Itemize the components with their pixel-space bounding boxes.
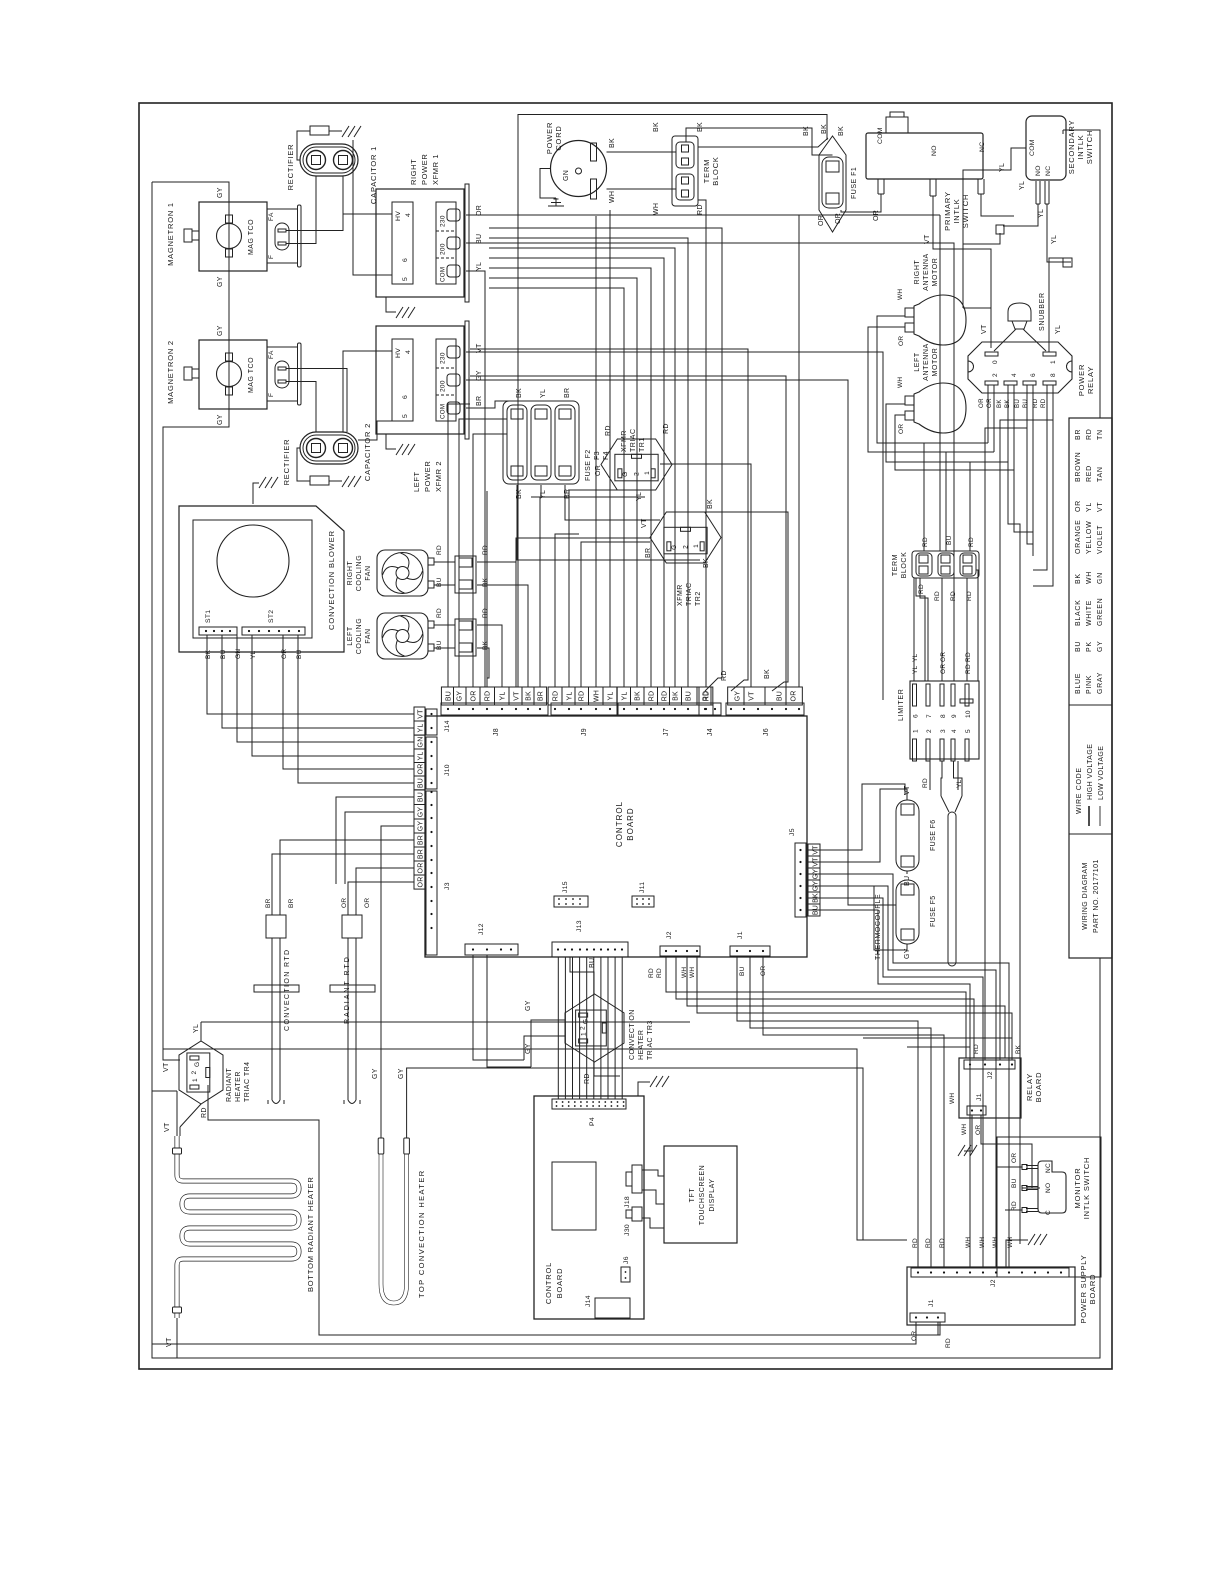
svg-text:J2: J2 <box>990 1279 997 1287</box>
monitor intlk switch body <box>1038 1161 1066 1213</box>
svg-text:BR: BR <box>538 691 545 701</box>
capacitor C2 terminal 2 <box>334 439 353 458</box>
wire GY magnetron2 left <box>163 409 229 1060</box>
wire OR fuse F1 to primary COM <box>841 194 881 212</box>
wire GY heater tube A <box>381 826 414 1138</box>
svg-text:BK: BK <box>673 691 680 701</box>
svg-text:COM: COM <box>877 127 884 144</box>
svg-text:GY: GY <box>217 187 224 198</box>
svg-text:G: G <box>194 1062 201 1067</box>
svg-text:OR: OR <box>898 424 905 434</box>
J4 pin labels <box>699 687 711 705</box>
svg-text:CORD: CORD <box>554 125 563 150</box>
svg-text:RIGHT: RIGHT <box>347 560 354 585</box>
svg-text:RD: RD <box>648 968 655 978</box>
svg-text:J1: J1 <box>737 931 744 939</box>
wire rectifier 1 <box>297 131 310 160</box>
svg-text:YL: YL <box>912 653 919 662</box>
secondary intlk switch terminals <box>1035 181 1037 204</box>
svg-text:WIRE CODE: WIRE CODE <box>1076 767 1083 814</box>
TB2 element 3 <box>960 553 976 576</box>
left antenna motor terminals <box>905 411 914 420</box>
svg-text:WH: WH <box>961 1124 968 1135</box>
TFT display box <box>664 1146 737 1243</box>
svg-text:F: F <box>268 255 275 259</box>
xfmr triac TR1 <box>601 439 672 490</box>
svg-text:HV: HV <box>395 211 402 221</box>
svg-text:10: 10 <box>965 710 972 718</box>
wire YL secondary NC <box>1047 204 1071 262</box>
svg-text:WH: WH <box>689 967 696 978</box>
left cooling fan body <box>377 613 428 659</box>
convection RTD probe <box>271 938 273 1100</box>
thermocouple cone <box>941 796 949 812</box>
svg-text:230: 230 <box>440 215 447 227</box>
PSB ground <box>1006 1240 1028 1267</box>
power supply J2 <box>911 1268 1069 1277</box>
svg-text:P4: P4 <box>589 1117 596 1126</box>
svg-text:BU: BU <box>417 778 424 788</box>
magnetron 2 MAG TCO circle <box>217 362 242 387</box>
xfmr2 terminal COM <box>447 402 460 414</box>
svg-text:RD: RD <box>1086 428 1093 440</box>
svg-text:OR: OR <box>986 398 993 408</box>
svg-text:POWER: POWER <box>545 122 554 154</box>
svg-text:MAG TCO: MAG TCO <box>248 357 255 393</box>
left fan wires <box>434 624 455 626</box>
svg-text:FA: FA <box>268 350 275 359</box>
svg-text:PART NO. 20177101: PART NO. 20177101 <box>1093 859 1100 933</box>
svg-text:ST1: ST1 <box>205 610 212 623</box>
svg-text:1: 1 <box>1050 360 1057 364</box>
blower ST1 connector <box>199 627 237 635</box>
wire term block to fuse F1 <box>686 128 833 155</box>
wire YL secondary COM to relay region <box>963 308 991 348</box>
relay board outline <box>959 1058 1021 1118</box>
magnetron 2 antenna stub <box>184 367 192 380</box>
wire thermocouple to limiter RD YL <box>929 761 931 790</box>
svg-text:DISPLAY: DISPLAY <box>709 1178 716 1211</box>
svg-text:5: 5 <box>965 729 972 733</box>
svg-text:XFMR 1: XFMR 1 <box>431 154 440 185</box>
svg-text:J30: J30 <box>624 1224 631 1236</box>
svg-text:GRAY: GRAY <box>1097 672 1104 694</box>
wire capacitor1 to xfmr1 HV <box>343 176 392 214</box>
wire J12 left <box>473 955 524 1060</box>
wire OR xfmr1 to J6 and TB2 <box>466 214 940 216</box>
svg-text:COM: COM <box>440 404 447 419</box>
svg-text:RIGHT: RIGHT <box>914 259 921 284</box>
J5 pin labels <box>808 844 820 916</box>
wire magnetron2 filament to capacitor2 <box>286 369 347 433</box>
svg-text:FAN: FAN <box>365 565 372 580</box>
svg-text:RD: RD <box>662 691 669 702</box>
svg-text:COOLING: COOLING <box>356 555 363 591</box>
terminal lug YL 2 <box>1063 258 1072 267</box>
svg-text:BOARD: BOARD <box>555 1268 564 1299</box>
svg-text:1: 1 <box>693 544 700 548</box>
svg-text:J13: J13 <box>576 920 583 932</box>
wire TB2 to relay <box>924 443 988 551</box>
svg-text:BLACK: BLACK <box>1075 600 1082 626</box>
right cooling fan body <box>377 550 428 596</box>
svg-text:3: 3 <box>940 729 947 733</box>
magnetron 2 filament oval <box>275 361 289 388</box>
wire limiter to TB2 <box>913 578 915 681</box>
svg-text:RD: RD <box>436 608 443 618</box>
wire VT to serpentine entry <box>176 1091 178 1136</box>
svg-text:4: 4 <box>1011 373 1018 377</box>
svg-text:RD: RD <box>436 545 443 555</box>
relay pin 8 <box>1043 381 1056 385</box>
xfmr1 terminal 200 <box>447 237 460 249</box>
svg-text:RD: RD <box>934 591 941 601</box>
svg-text:COM: COM <box>440 267 447 282</box>
svg-text:BK: BK <box>996 399 1003 408</box>
svg-text:WH: WH <box>1007 1237 1014 1248</box>
wire long top <box>163 1049 907 1240</box>
svg-text:OR: OR <box>911 1331 918 1341</box>
svg-text:PINK: PINK <box>1086 675 1093 694</box>
svg-text:MONITOR: MONITOR <box>1073 1168 1082 1209</box>
connector J4 <box>699 703 721 715</box>
wire capacitor2 to xfmr2 HV <box>343 351 392 432</box>
connector J10 <box>426 737 437 789</box>
svg-text:RELAY: RELAY <box>1086 366 1095 394</box>
wire bus J7 to components <box>489 288 624 687</box>
relay pin 6 wires <box>1027 385 1033 544</box>
wire GY through magnetron 1 <box>228 202 230 271</box>
svg-text:BLOCK: BLOCK <box>711 156 720 185</box>
svg-text:BK: BK <box>764 669 771 679</box>
svg-text:RD: RD <box>649 691 656 702</box>
svg-text:2: 2 <box>992 373 999 377</box>
relay board J2 <box>964 1060 1015 1069</box>
svg-text:BOARD: BOARD <box>1088 1274 1097 1305</box>
svg-text:WH: WH <box>609 191 616 203</box>
svg-text:YL: YL <box>250 650 257 659</box>
wire bus J9 to components <box>555 534 579 687</box>
svg-text:5: 5 <box>402 414 409 418</box>
svg-text:SECONDARY: SECONDARY <box>1067 120 1076 175</box>
wire GY magnetron1 right loop <box>152 182 229 202</box>
svg-text:XFMR: XFMR <box>677 584 684 606</box>
wire main loop <box>152 182 1100 1358</box>
limiter pins 6-10 <box>913 684 917 706</box>
wire YL lug from secondary <box>963 233 1000 244</box>
wire BU xfmr1 to limiter <box>466 243 954 681</box>
cb2 inner rect <box>552 1162 596 1230</box>
svg-text:OR: OR <box>364 898 371 908</box>
svg-text:1: 1 <box>192 1078 199 1082</box>
TFT connection J30 <box>642 1218 664 1228</box>
svg-text:GREEN: GREEN <box>1097 598 1104 626</box>
wire BK fuse F2 to TR2 <box>517 485 700 560</box>
svg-text:OR: OR <box>898 336 905 346</box>
TFT connection J18 <box>642 1190 664 1204</box>
blower chassis ground <box>253 483 259 504</box>
right antenna motor terminals <box>905 323 914 332</box>
secondary intlk switch body <box>1026 116 1066 180</box>
svg-text:BLOCK: BLOCK <box>901 552 908 579</box>
connector J11 <box>632 896 654 907</box>
svg-text:BR: BR <box>265 898 272 908</box>
wire GY J3 cell <box>345 812 414 884</box>
wire YL fuse F3 <box>541 485 645 497</box>
svg-text:RD: RD <box>485 691 492 702</box>
svg-text:2: 2 <box>926 729 933 733</box>
svg-text:HIGH VOLTAGE: HIGH VOLTAGE <box>1087 744 1094 800</box>
svg-text:COOLING: COOLING <box>356 618 363 654</box>
svg-text:CONVECTION: CONVECTION <box>629 1009 636 1060</box>
svg-text:G: G <box>583 1019 590 1024</box>
svg-text:OR: OR <box>281 649 288 659</box>
wire BR fuse F4 run <box>565 485 660 520</box>
svg-text:VT: VT <box>514 691 521 701</box>
svg-text:BU: BU <box>436 640 443 650</box>
P4 ribbon wires <box>557 957 559 1099</box>
svg-text:BK: BK <box>516 388 523 398</box>
magnetron 2 filament bracket <box>267 346 298 348</box>
svg-text:CONTROL: CONTROL <box>544 1262 553 1304</box>
svg-text:RD: RD <box>965 652 972 662</box>
limiter pins 1-5 <box>913 739 917 761</box>
svg-text:OR: OR <box>1075 500 1082 512</box>
bottom radiant heater tube outline <box>177 1136 299 1318</box>
relay pin 8 wires <box>1033 385 1047 570</box>
left antenna motor body <box>914 383 966 433</box>
svg-text:CONTROL: CONTROL <box>615 801 624 847</box>
wire RD TR4 to power supply J1 <box>208 1085 940 1335</box>
svg-text:BU: BU <box>739 966 746 976</box>
svg-text:YELLOW: YELLOW <box>1086 521 1093 554</box>
svg-text:BK: BK <box>838 126 845 136</box>
svg-text:RADIANT RTD: RADIANT RTD <box>344 955 351 1024</box>
snubber wires to relay <box>994 329 1016 351</box>
relay pin 0 <box>985 352 998 356</box>
svg-text:J2: J2 <box>987 1071 994 1079</box>
connector P4 <box>552 1099 626 1109</box>
svg-text:TRIAC TR4: TRIAC TR4 <box>244 1061 251 1102</box>
svg-text:J11: J11 <box>639 882 646 893</box>
svg-text:J6: J6 <box>763 728 770 736</box>
fuse F2 <box>507 405 527 480</box>
svg-text:BU: BU <box>1022 399 1029 408</box>
svg-text:YL: YL <box>622 692 629 701</box>
left cooling fan terminals <box>428 644 434 651</box>
magnetron 1 box <box>199 202 267 271</box>
TB2 element 1 <box>916 553 932 576</box>
svg-text:WH: WH <box>1086 571 1093 584</box>
svg-text:2: 2 <box>580 1026 587 1030</box>
legend outer box <box>1069 418 1112 958</box>
connector J18 <box>632 1165 642 1193</box>
svg-text:PK: PK <box>1086 641 1093 652</box>
relay J2 long wires to power relay <box>985 385 1027 1060</box>
svg-text:TRIAC: TRIAC <box>686 583 693 607</box>
svg-text:VIOLET: VIOLET <box>1097 525 1104 554</box>
wire BU J3 cell <box>336 797 414 884</box>
svg-text:G: G <box>622 471 629 476</box>
capacitor C2 body <box>300 432 358 464</box>
wire fuse F5 to J5 <box>807 886 907 950</box>
svg-text:BR: BR <box>417 849 424 859</box>
svg-text:TERM: TERM <box>892 554 899 576</box>
svg-text:YL: YL <box>567 692 574 701</box>
svg-text:FAN: FAN <box>365 628 372 643</box>
svg-text:J12: J12 <box>478 923 485 935</box>
limiter box <box>910 681 979 759</box>
control board 2 outline <box>534 1096 644 1319</box>
svg-text:OR: OR <box>476 205 483 216</box>
svg-text:SNUBBER: SNUBBER <box>1039 292 1046 331</box>
svg-text:LOW VOLTAGE: LOW VOLTAGE <box>1098 746 1105 800</box>
limiter extra wires <box>916 578 925 681</box>
svg-text:CAPACITOR 2: CAPACITOR 2 <box>363 423 372 481</box>
xfmr1 terminal 230 <box>447 209 460 221</box>
svg-text:J4: J4 <box>707 728 714 736</box>
magnetron 2 flange plate <box>298 343 302 405</box>
capacitor C1 terminal 1 <box>307 151 326 170</box>
svg-text:RED: RED <box>1086 465 1093 482</box>
magnetron 2 box <box>199 340 267 409</box>
wire OR right motor <box>868 327 994 452</box>
xfmr2 HV winding box <box>392 339 413 421</box>
magnetron 1 filament bracket <box>267 208 298 210</box>
right power xfmr 1 box <box>376 189 464 297</box>
svg-text:J3: J3 <box>444 882 451 890</box>
connector J15 <box>554 896 588 907</box>
wire VT TR4 to radiant heater <box>180 1104 201 1127</box>
svg-text:POWER: POWER <box>420 154 429 185</box>
svg-text:INTLK: INTLK <box>1076 134 1085 159</box>
svg-text:BK: BK <box>707 499 714 509</box>
svg-text:J8: J8 <box>493 728 500 736</box>
wire bundle J5 down to power supply <box>807 910 970 1267</box>
xfmr1 HV winding box <box>392 202 413 284</box>
svg-text:GY: GY <box>735 691 742 702</box>
xfmr1 terminal COM <box>447 265 460 277</box>
svg-text:COM: COM <box>1029 139 1036 156</box>
svg-text:TN: TN <box>1097 429 1104 440</box>
GN wire <box>540 169 556 199</box>
svg-text:BR: BR <box>288 898 295 908</box>
svg-text:YL: YL <box>999 163 1006 172</box>
relay pin 1 wire YL <box>1049 258 1063 352</box>
J7 pin labels <box>617 687 713 705</box>
svg-text:CAPACITOR 1: CAPACITOR 1 <box>369 146 378 204</box>
svg-text:LIMITER: LIMITER <box>898 688 905 721</box>
svg-text:RD: RD <box>939 1238 946 1248</box>
TR4 wires <box>163 1059 179 1061</box>
svg-text:INTLK: INTLK <box>952 198 961 223</box>
wire OR left motor <box>895 415 1014 470</box>
term block TB1 <box>672 136 698 206</box>
connector J12 <box>465 944 518 955</box>
legend low voltage <box>1099 806 1101 826</box>
wire YL secondary NO <box>1003 204 1038 226</box>
primary intlk switch terminals <box>877 179 879 194</box>
convection blower circle <box>217 525 289 597</box>
svg-text:OR: OR <box>978 398 985 408</box>
svg-text:MAGNETRON 2: MAGNETRON 2 <box>166 340 175 404</box>
svg-text:ANTENNA: ANTENNA <box>923 253 930 291</box>
wire from primary NC <box>981 194 1014 216</box>
svg-text:GY: GY <box>398 1068 405 1079</box>
svg-text:YL: YL <box>540 389 547 398</box>
svg-text:SWITCH: SWITCH <box>1085 130 1094 164</box>
svg-text:CONVECTION BLOWER: CONVECTION BLOWER <box>327 530 336 630</box>
svg-text:GY: GY <box>525 1000 532 1011</box>
svg-text:4: 4 <box>951 729 958 733</box>
connector J6 <box>726 703 804 715</box>
svg-text:1: 1 <box>913 729 920 733</box>
fuse F5 <box>896 880 919 944</box>
svg-text:RD: RD <box>605 425 612 436</box>
svg-text:FUSE F5: FUSE F5 <box>930 895 937 927</box>
svg-text:TR2: TR2 <box>695 591 702 606</box>
xfmr2 terminal 200 <box>447 374 460 386</box>
svg-text:MOTOR: MOTOR <box>932 258 939 287</box>
rectifier 2 resistor <box>310 476 329 485</box>
svg-text:VT: VT <box>749 691 756 701</box>
svg-text:GY: GY <box>417 807 424 818</box>
power relay body <box>968 342 1072 393</box>
connector J5 <box>795 843 806 917</box>
svg-text:BU: BU <box>1075 641 1082 652</box>
svg-text:J14: J14 <box>444 720 451 732</box>
svg-text:TOP CONVECTION HEATER: TOP CONVECTION HEATER <box>417 1169 426 1298</box>
svg-text:GY: GY <box>217 414 224 425</box>
svg-text:RADIANT: RADIANT <box>226 1068 233 1102</box>
svg-text:GN: GN <box>235 649 242 659</box>
svg-text:RD: RD <box>703 691 710 702</box>
convection RTD wires <box>272 854 414 915</box>
svg-text:RD: RD <box>579 691 586 702</box>
svg-text:RD: RD <box>201 1107 208 1118</box>
svg-text:RD: RD <box>968 537 975 547</box>
J14 pin labels <box>414 707 425 735</box>
svg-text:6: 6 <box>402 258 409 262</box>
svg-text:BK: BK <box>653 122 660 132</box>
svg-text:RIGHT: RIGHT <box>409 159 418 185</box>
svg-text:GN: GN <box>1097 572 1104 584</box>
svg-text:VT: VT <box>166 1337 173 1347</box>
wire WH right motor <box>877 316 988 443</box>
wires blower to control board <box>207 635 414 714</box>
svg-text:POWER: POWER <box>1077 364 1086 396</box>
svg-text:RD: RD <box>656 968 663 978</box>
legend high voltage <box>1088 806 1090 826</box>
TR3 wires <box>570 957 594 994</box>
relay board J1 <box>967 1106 986 1115</box>
J3 pin labels <box>414 790 425 889</box>
svg-text:0: 0 <box>992 360 999 364</box>
power cord plug <box>551 141 607 197</box>
fuse F1 <box>819 136 846 232</box>
bottom radiant heater entry collar <box>173 1148 182 1154</box>
svg-text:7: 7 <box>926 714 933 718</box>
svg-text:F: F <box>268 393 275 397</box>
svg-text:HV: HV <box>395 348 402 358</box>
term block TB2 <box>912 551 979 578</box>
svg-text:2: 2 <box>191 1071 198 1075</box>
xfmr1 flange <box>465 184 469 302</box>
svg-text:FUSE F1: FUSE F1 <box>851 167 858 199</box>
svg-text:BR: BR <box>417 835 424 845</box>
svg-text:BOTTOM RADIANT HEATER: BOTTOM RADIANT HEATER <box>306 1176 315 1292</box>
bottom radiant heater exit collar <box>173 1307 182 1313</box>
